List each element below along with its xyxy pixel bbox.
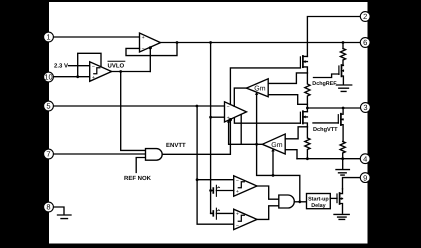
svg-text:UVLO: UVLO: [108, 62, 125, 69]
arrowhead bias into Gm2: [271, 148, 274, 151]
resistor R2 current sense bottom: [305, 127, 310, 159]
pin 9: [360, 173, 370, 183]
node feedback junction: [176, 41, 179, 44]
node DchgVTT drain: [342, 107, 345, 110]
svg-text:10: 10: [44, 73, 52, 82]
pin 5: [44, 101, 54, 111]
svg-text:5: 5: [46, 102, 50, 111]
battery B1 reference offset upper: [211, 185, 234, 196]
node UVLO branch: [119, 70, 122, 73]
hysteresis glyph PG lower: [238, 215, 244, 221]
node bias to startup: [298, 200, 301, 203]
svg-text:DchgVTT: DchgVTT: [313, 126, 338, 133]
wire ENVTT to main comparator enable: [162, 119, 230, 154]
wire pin5 to main comparator: [53, 105, 225, 107]
wire pin3 VTT line: [307, 107, 360, 109]
node comparator plus branch: [209, 116, 212, 119]
svg-text:−: −: [92, 64, 95, 70]
svg-text:4: 4: [363, 154, 367, 163]
svg-text:2.3 V: 2.3 V: [54, 63, 68, 70]
wire Gm1 input upper sense: [268, 73, 307, 84]
node VTTSNS to PG upper: [196, 178, 199, 181]
pin 4: [360, 154, 370, 164]
resistor R1 current sense top: [305, 73, 310, 112]
svg-text:7: 7: [46, 150, 50, 159]
svg-text:+: +: [227, 115, 230, 121]
pin 3: [361, 103, 371, 113]
svg-text:−: −: [142, 46, 145, 52]
arrowhead bias into Gm1: [255, 92, 258, 95]
wire VTTSNS vertical to PG comparators: [197, 106, 234, 224]
op-amp input sign marks: [92, 35, 239, 229]
ground for pin8: [58, 215, 72, 219]
wire UVLO output: [112, 71, 151, 73]
pin circles: [44, 12, 371, 212]
transistor Q4 DchgVTT FET: [338, 108, 343, 142]
wire comparator bottom edge to Gm2 output: [240, 115, 242, 145]
wire bias from startup net to Gm amps: [257, 94, 300, 202]
op-amp U6 Gm2: [262, 134, 285, 154]
svg-text:REF NOK: REF NOK: [124, 175, 152, 182]
node battery1 branch: [209, 189, 212, 192]
svg-text:8: 8: [46, 203, 50, 212]
svg-text:−: −: [227, 104, 230, 110]
components drawn separately: [58, 49, 352, 222]
wire UVLO to AND gate: [121, 72, 146, 151]
hysteresis glyph UVLO: [94, 68, 100, 74]
op-amp U4 main comparator: [225, 102, 247, 122]
svg-text:DchgREF: DchgREF: [312, 81, 337, 87]
battery B2 reference offset lower: [211, 208, 234, 219]
op-amp U1 buffer: [140, 33, 161, 52]
wire REFOUT to comparator plus: [211, 116, 225, 118]
IC outline box: [49, 2, 369, 245]
AND gate U3 ENVTT: [146, 149, 163, 161]
wire DchgVTT gate stub: [313, 122, 338, 124]
svg-text:3: 3: [363, 103, 367, 112]
node DchgREF branch: [342, 41, 345, 44]
svg-text:1: 1: [46, 33, 50, 42]
node R3 bottom pin4: [341, 157, 344, 160]
wire pin9 to FET: [343, 178, 361, 189]
wire box to pin9 FET gate: [330, 197, 337, 199]
pin 7: [44, 149, 54, 159]
pin 6: [360, 38, 370, 48]
wire Gm1 input lower sense: [268, 95, 307, 105]
svg-text:+: +: [142, 35, 145, 41]
svg-text:2: 2: [363, 12, 367, 21]
transistor Q3 DchgREF FET: [339, 65, 344, 84]
op-amp U5 Gm1: [246, 79, 268, 97]
wire Gm1 output to comparator: [234, 88, 246, 106]
node REFOUT sense branch: [209, 41, 212, 44]
pin 2: [360, 12, 370, 22]
svg-text:Delay: Delay: [311, 203, 325, 209]
wire pin2 to top FET drain: [307, 17, 360, 57]
ground for pin4 node: [336, 159, 349, 175]
wire PG upper output to AND: [257, 186, 279, 199]
node R2 bottom pin4: [306, 157, 309, 160]
wire pin10 loop to comparator top: [78, 53, 101, 76]
wire REFOUT sense vertical: [211, 43, 213, 214]
pin 8: [44, 202, 54, 212]
wire buffer feedback: [126, 43, 177, 56]
wire pin1 to buffer: [53, 36, 140, 38]
wire comparator bottom to bottom FET gate: [234, 118, 300, 124]
svg-text:Start-up: Start-up: [308, 197, 329, 203]
wire Gm2 output to comparator plus: [229, 121, 263, 144]
transistor Q2 bottom power FET: [300, 111, 307, 127]
op-amp U8 PG comparator lower: [234, 209, 257, 229]
node comparator enable on edge: [229, 118, 232, 121]
wire pin8 to ground: [53, 207, 64, 215]
svg-text:−: −: [236, 178, 239, 184]
wire DchgREF gate stub: [314, 74, 339, 78]
svg-text:+: +: [236, 212, 239, 218]
arrowhead Gm2 output into comparator: [227, 119, 230, 122]
hysteresis glyph PG upper: [238, 182, 244, 188]
wire buffer enable from UVLO: [149, 48, 151, 72]
ground for DchgREF FET: [336, 85, 351, 91]
wire Gm2 input lower sense: [285, 150, 297, 159]
node pin10 loop junction: [76, 75, 79, 78]
wire REF NOK to AND gate: [136, 158, 145, 173]
svg-text:ENVTT: ENVTT: [166, 142, 186, 149]
wire AND to Start-up Delay box: [294, 201, 306, 203]
node VTTSNS branch: [196, 105, 199, 108]
wire PG lower output to AND: [257, 206, 279, 220]
wire pin7 to AND gate: [53, 153, 146, 155]
wire pin4 line: [297, 158, 360, 160]
pin 1: [44, 32, 54, 42]
ground for PGOOD FET: [334, 214, 349, 219]
node buffer enable on edge: [149, 46, 152, 49]
wire 2.3V to UVLO comparator: [69, 65, 90, 67]
transistor Q5 PGOOD FET: [337, 189, 343, 213]
transistor Q1 top power FET: [300, 56, 307, 73]
svg-text:+: +: [236, 189, 239, 195]
op-amp U7 PG comparator upper: [234, 176, 257, 196]
wire comparator top to top FET gate: [230, 68, 300, 105]
Start-up Delay box: [307, 194, 331, 209]
node bias crossing Gm2 output: [255, 143, 258, 146]
svg-text:Gm: Gm: [254, 86, 265, 93]
svg-text:Gm: Gm: [271, 142, 282, 149]
wire VTTSNS to upper PG comparator: [197, 179, 234, 181]
resistor R3 DchgVTT: [340, 142, 345, 159]
node bias branch Gm2: [272, 174, 275, 177]
wire pin6 branch to DchgREF resistor: [342, 43, 344, 49]
svg-text:−: −: [236, 223, 239, 229]
wire pin10 to UVLO comparator: [53, 76, 90, 78]
pin 10: [44, 72, 54, 82]
resistor R4 DchgREF: [340, 49, 345, 66]
svg-text:6: 6: [363, 38, 367, 47]
svg-text:9: 9: [363, 173, 367, 182]
wire buffer output to pin 6: [161, 42, 361, 44]
node VTT chain pin3: [306, 107, 309, 110]
wire Gm2 input upper sense: [285, 127, 307, 139]
wire bias branch to Gm2: [272, 151, 274, 176]
AND gate U9 power good: [279, 195, 294, 208]
svg-text:+: +: [92, 75, 95, 81]
op-amp U2 UVLO comparator: [90, 62, 112, 82]
